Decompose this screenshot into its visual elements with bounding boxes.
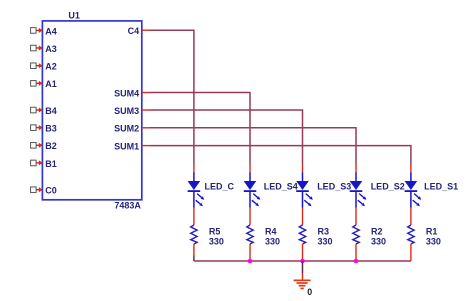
svg-text:B2: B2 xyxy=(45,141,57,151)
svg-text:R5: R5 xyxy=(209,226,221,236)
svg-text:U1: U1 xyxy=(68,10,80,20)
junction dot at R4/rail xyxy=(248,259,253,264)
wire SUM4 net: horizontal + vertical down to LED_S4 xyxy=(150,93,250,165)
wire SUM3 net: red stub into LED_S3 xyxy=(302,165,304,174)
pin B4 xyxy=(31,106,57,116)
pin B2 xyxy=(31,141,57,151)
wire SUM2 net: red stub into LED_S2 xyxy=(355,165,357,174)
wire LED_S1 to R1 xyxy=(410,208,412,226)
pin B3 xyxy=(31,124,57,134)
wire SUM1 net: red stub into LED_S1 xyxy=(410,165,412,174)
LED LED_C xyxy=(188,173,205,208)
wire SUM3 net: pin stub xyxy=(142,109,150,111)
svg-text:B1: B1 xyxy=(45,159,57,169)
svg-text:R1: R1 xyxy=(426,226,438,236)
pin A3 xyxy=(31,44,57,54)
svg-text:SUM2: SUM2 xyxy=(114,124,139,134)
svg-text:SUM4: SUM4 xyxy=(114,88,139,98)
junction dot at R3/ground/rail xyxy=(300,259,305,264)
svg-text:A3: A3 xyxy=(45,44,57,54)
wire SUM4 net: pin stub xyxy=(142,92,150,94)
svg-text:A4: A4 xyxy=(45,26,57,36)
pin C0 xyxy=(31,186,57,196)
resistor R1 xyxy=(408,225,414,244)
wire SUM2 net: horizontal + vertical down to LED_S2 xyxy=(150,128,356,165)
wire ground rail xyxy=(194,260,411,262)
pin A1 xyxy=(31,79,57,89)
svg-text:330: 330 xyxy=(265,236,280,246)
resistor R5 xyxy=(191,225,197,244)
svg-text:LED_S1: LED_S1 xyxy=(424,181,458,191)
resistor R4 xyxy=(247,225,253,244)
LED LED_S1 xyxy=(405,173,422,208)
wire LED_S3 to R3 xyxy=(302,208,304,226)
wire LED_S4 to R4 xyxy=(249,208,251,226)
svg-text:LED_S3: LED_S3 xyxy=(317,181,351,191)
ground symbol 0 xyxy=(294,280,311,288)
svg-text:C4: C4 xyxy=(128,26,140,36)
wire R3 to rail xyxy=(302,244,304,261)
pin A2 xyxy=(31,62,57,72)
svg-text:B3: B3 xyxy=(45,124,57,134)
wire R4 to rail xyxy=(249,244,251,261)
svg-text:R3: R3 xyxy=(318,226,330,236)
svg-text:SUM3: SUM3 xyxy=(114,106,139,116)
svg-text:C0: C0 xyxy=(45,186,57,196)
svg-text:330: 330 xyxy=(426,236,441,246)
wire SUM1 net: pin stub xyxy=(142,145,150,147)
pin B1 xyxy=(31,159,57,169)
svg-text:330: 330 xyxy=(318,236,333,246)
wire SUM2 net: pin stub xyxy=(142,127,150,129)
wire SUM1 net: horizontal + vertical down to LED_S1 xyxy=(150,146,411,165)
wire SUM3 net: horizontal + vertical down to LED_S3 xyxy=(150,110,303,165)
svg-text:A2: A2 xyxy=(45,62,57,72)
svg-text:A1: A1 xyxy=(45,79,57,89)
svg-text:LED_S4: LED_S4 xyxy=(264,181,298,191)
wire LED_S2 to R2 xyxy=(355,208,357,226)
wire ground pin xyxy=(302,273,304,280)
IC U1 body (7483A 4-bit adder) xyxy=(42,21,141,200)
svg-text:B4: B4 xyxy=(45,106,57,116)
pin A4 xyxy=(31,26,57,36)
LED LED_S4 xyxy=(244,173,261,208)
svg-text:330: 330 xyxy=(371,236,386,246)
wire C4 net: red stub into LED_C xyxy=(193,165,195,174)
LED LED_S2 xyxy=(350,173,367,208)
wire SUM4 net: red stub into LED_S4 xyxy=(249,165,251,174)
svg-text:0: 0 xyxy=(307,287,312,297)
wire C4 net: horizontal + vertical down to LED_C xyxy=(150,30,194,164)
svg-text:SUM1: SUM1 xyxy=(114,142,139,152)
resistor R3 xyxy=(299,225,305,244)
svg-text:330: 330 xyxy=(209,236,224,246)
wire rail to ground xyxy=(302,261,304,273)
svg-text:R2: R2 xyxy=(371,226,383,236)
wire LED_C to R5 xyxy=(193,208,195,226)
wire R5 to rail lower segment xyxy=(193,256,195,262)
resistor R2 xyxy=(353,225,359,244)
svg-text:7483A: 7483A xyxy=(114,201,141,211)
LED LED_S3 xyxy=(296,173,313,208)
svg-text:R4: R4 xyxy=(265,226,277,236)
junction dot at R2/rail xyxy=(354,259,359,264)
wire R1 to rail xyxy=(410,244,412,261)
svg-text:LED_S2: LED_S2 xyxy=(371,181,405,191)
wire R5 to rail xyxy=(193,244,195,256)
wire C4 net: pin stub xyxy=(142,29,150,31)
svg-text:LED_C: LED_C xyxy=(205,181,235,191)
wire R2 to rail xyxy=(355,244,357,261)
